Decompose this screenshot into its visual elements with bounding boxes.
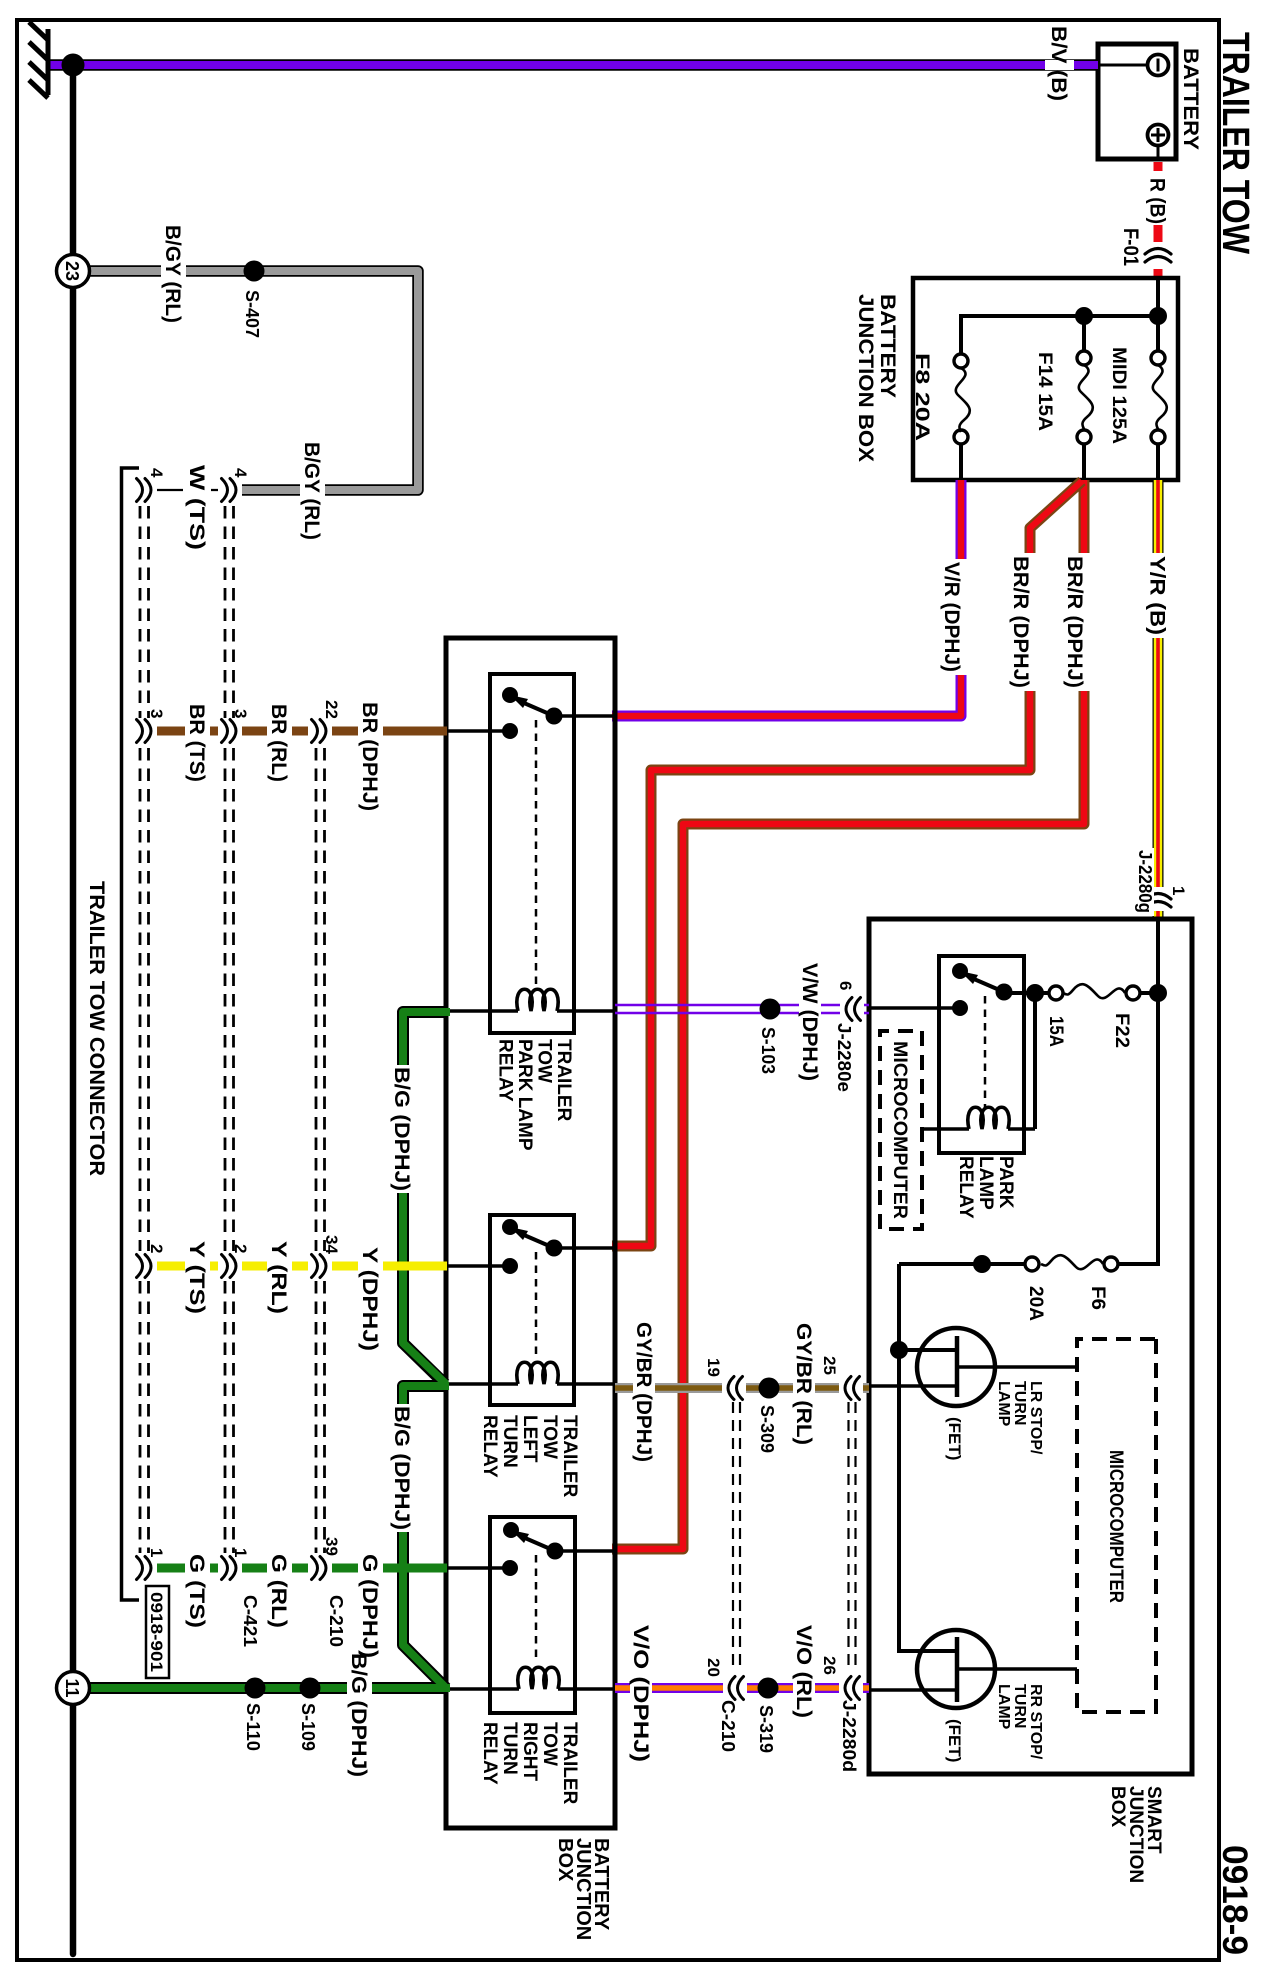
microcomputer dashed box (large) [1077,1339,1156,1712]
svg-text:4: 4 [147,468,166,478]
connector break J-2280g chevrons [1144,887,1172,911]
label G (TS) inline [185,1555,210,1581]
svg-text:(FET): (FET) [945,1417,964,1460]
label B/GY (RL) inline first [161,258,186,284]
svg-text:GY/BR (DPHJ): GY/BR (DPHJ) [632,1322,655,1462]
connector break pin1 at face chevrons [133,1555,157,1581]
wire stub bus to F14 [1082,316,1086,351]
svg-text:F14 15A: F14 15A [1034,352,1055,431]
svg-text:RELAY: RELAY [479,1415,500,1478]
wire BR contact to box edge [446,729,510,732]
junction node F6 output [973,1255,991,1273]
fuse F14 15A [1077,351,1091,365]
svg-text:TURN: TURN [1011,1381,1028,1425]
svg-text:TRAILER TOW CONNECTOR: TRAILER TOW CONNECTOR [85,881,108,1176]
connector break 19 chevrons [722,1375,746,1401]
svg-text:1: 1 [1169,886,1188,895]
label BR (RL) inline [267,718,292,744]
label V/O (RL) inline [793,1677,815,1699]
battery junction box (fuse box) [913,278,1178,480]
svg-text:V/O (RL): V/O (RL) [792,1625,815,1718]
svg-text:G (RL): G (RL) [267,1554,290,1628]
connector break pin34 at C-210 chevrons [308,1253,332,1279]
svg-text:Y/R (B): Y/R (B) [1146,556,1169,635]
junction node ground [62,54,85,77]
bus wire to F14 and F8 [961,316,1158,354]
wire G contact to box edge [446,1566,510,1569]
svg-text:(FET): (FET) [945,1719,964,1762]
wire F22 tap down [1140,991,1158,995]
svg-text:TOW: TOW [534,1039,555,1083]
svg-text:0918-9: 0918-9 [1215,1845,1254,1955]
label V/O (DPHJ) inline [630,1677,652,1699]
label BR/R (DPHJ) inline [1070,553,1096,691]
park lamp relay blade with arrow [524,703,554,716]
wire contact to box edge [869,1006,960,1009]
splice S-103 [760,999,781,1020]
connector line J-2280d dashed pair [849,1402,856,1667]
svg-text:BATTERY: BATTERY [1179,48,1202,150]
trailer tow right turn relay box [490,1517,575,1713]
svg-text:MICROCOMPUTER: MICROCOMPUTER [1105,1450,1126,1603]
svg-text:TRAILER TOW: TRAILER TOW [1214,32,1256,254]
relay common node [996,984,1013,1001]
junction node at F14 [1075,307,1093,325]
label GY/BR (RL) inline [793,1377,815,1399]
svg-text:LAMP: LAMP [975,1156,996,1210]
svg-text:TOW: TOW [539,1722,560,1766]
connector line C-421 dashed pair [225,506,234,1553]
fuse F8 20A [954,354,968,368]
left turn relay Y contact [502,1258,518,1274]
park lamp relay BR contact [502,723,518,739]
label B/GY (RL) inline second [300,477,325,503]
relay switch blade with arrow [974,979,1004,992]
label B/G (DPHJ) trunk inline first [390,1404,415,1532]
wire battery positive lead inside box [1157,146,1160,160]
label BR/R (DPHJ) inline second [1016,553,1042,691]
wire Y contact to box edge [446,1264,510,1267]
wire coil tap to park lamp relay coil [1033,993,1037,1129]
wire BR/R (DPHJ) F14 branch to trailer tow left turn relay, brown outline [612,481,1082,1246]
svg-text:BR (DPHJ): BR (DPHJ) [358,702,381,811]
left turn relay common node [546,1240,563,1257]
battery box [1098,44,1176,159]
svg-text:Y (RL): Y (RL) [267,1241,290,1314]
wire V/O (DPHJ)/(RL) right turn coil to SJB, violet outline [615,1683,869,1693]
park lamp relay actuator dashed link [535,720,538,986]
svg-text:BR (TS): BR (TS) [185,704,208,782]
wire RR FET to microcomputer [957,1667,1077,1670]
svg-text:S-103: S-103 [758,1027,778,1074]
svg-text:MICROCOMPUTER: MICROCOMPUTER [889,1041,910,1219]
relay contact to V/W wire [952,1000,968,1016]
wire V/O orange core [615,1685,869,1691]
svg-text:LEFT: LEFT [519,1415,540,1463]
label G (DPHJ) inline [358,1555,383,1581]
junction node LR FET branch [890,1341,908,1359]
battery negative terminal [1148,55,1169,76]
svg-text:F6: F6 [1087,1286,1108,1310]
trailer tow connector bracket [122,468,140,1600]
wire feed into box to MIDI fuse [1156,278,1160,351]
wire Y (DPHJ)/(RL)/(TS) left turn relay to connector pin 2, yellow [151,1262,447,1271]
connector line C-210 dashed pair (left) [316,748,325,1553]
connector break pin2 at face chevrons [133,1253,157,1279]
connector break pin39 at C-210 chevrons [308,1555,332,1581]
wire common to box edge [554,1246,613,1249]
svg-text:V/R (DPHJ): V/R (DPHJ) [940,562,963,672]
connector break pin4 at face chevrons [133,477,157,503]
wire Y/R (B) yellow [1154,480,1163,919]
wire Y/R (B) MIDI fuse to smart junction box, black outline [1153,480,1164,919]
svg-text:TURN: TURN [1011,1684,1028,1728]
label GY/BR (DPHJ) inline [633,1377,655,1399]
svg-text:F22: F22 [1111,1013,1132,1048]
wire RR FET to V/O [869,1688,957,1691]
connector line C-210 dashed pair (right) [733,1402,740,1667]
left turn relay coil [557,1382,615,1385]
left turn relay blade with arrow [524,1235,554,1248]
svg-text:4: 4 [231,468,250,478]
ground symbol chassis [46,29,51,95]
svg-text:GY/BR (RL): GY/BR (RL) [792,1323,815,1445]
svg-text:V/W (DPHJ): V/W (DPHJ) [798,963,821,1081]
svg-text:S-109: S-109 [298,1703,318,1751]
connector break pin2 at C-421 chevrons [218,1253,242,1279]
splice S-319 [758,1678,779,1699]
svg-text:B/G (DPHJ): B/G (DPHJ) [390,1067,413,1191]
wire Y/R (B) red stripe [1156,480,1160,919]
left turn relay actuator dashed link [535,1252,538,1358]
fuse F6 20A [1104,1257,1118,1271]
wire R (B) red segments battery to fusebox [1154,162,1163,278]
label G (RL) inline [267,1555,292,1581]
park lamp relay box (SJB) [939,956,1024,1153]
svg-text:23: 23 [62,261,82,281]
connector break 25 chevrons [839,1375,863,1401]
svg-text:TURN: TURN [499,1722,520,1775]
connector break pin22 at C-210 chevrons [308,718,332,744]
svg-text:PARK: PARK [995,1156,1016,1209]
svg-text:C-210: C-210 [326,1595,346,1647]
svg-text:RIGHT: RIGHT [519,1722,540,1782]
battery positive terminal [1148,125,1169,146]
svg-text:J-2280d: J-2280d [839,1700,859,1772]
right turn relay common node [547,1543,564,1560]
label BR (TS) inline [185,718,210,744]
svg-text:TOW: TOW [539,1415,560,1459]
svg-text:C-421: C-421 [240,1595,260,1647]
wire W (TS) connector pin 4 [151,489,224,491]
label Y/R (B) inline [1145,553,1171,638]
svg-text:LR STOP/: LR STOP/ [1027,1381,1044,1455]
right turn relay actuator dashed link [535,1555,538,1662]
svg-text:JUNCTION BOX: JUNCTION BOX [854,294,877,462]
label V/R (DPHJ) inline [947,559,973,675]
svg-text:25: 25 [820,1356,839,1375]
svg-text:B/V (B): B/V (B) [1047,26,1070,101]
wire G (DPHJ)/(RL)/(TS) right turn relay to connector pin 1, green [151,1564,447,1573]
connector break 26 chevrons [839,1675,863,1701]
svg-text:22: 22 [322,700,341,719]
junction node at MIDI [1149,307,1167,325]
trailer tow park lamp relay box [490,674,574,1033]
svg-text:15A: 15A [1045,1016,1066,1047]
svg-text:RELAY: RELAY [495,1039,516,1102]
svg-text:0918-901: 0918-901 [147,1592,166,1672]
wire common to box edge [554,714,613,717]
svg-text:B/G (DPHJ): B/G (DPHJ) [390,1406,413,1530]
ground reference circle 23 [57,255,90,288]
svg-text:B/G (DPHJ): B/G (DPHJ) [347,1653,370,1777]
label B/V (B) [1045,60,1074,70]
label V/W (DPHJ) inline [799,999,821,1020]
svg-text:F-01: F-01 [1119,228,1142,266]
svg-text:BR/R (DPHJ): BR/R (DPHJ) [1009,556,1032,688]
connector break pin4 at C-421 chevrons [218,477,242,503]
wire B/G (DPHJ) trunk, black outline [87,1012,448,1688]
svg-text:RELAY: RELAY [479,1722,500,1785]
wire battery negative lead inside box [1098,64,1148,67]
relay coil (SJB park lamp) [1008,1127,1035,1130]
svg-text:BR/R (DPHJ): BR/R (DPHJ) [1063,556,1086,688]
svg-text:BOX: BOX [1107,1786,1128,1828]
wire BR/R (DPHJ) red core [612,480,1084,1549]
wire V/R (DPHJ) F8 to trailer tow park lamp relay, violet outline [612,480,961,716]
wire GY/BR brown core [615,1385,869,1391]
svg-text:C-210: C-210 [718,1700,738,1752]
svg-text:W (TS): W (TS) [185,465,208,550]
wire main feed inside SJB [1118,919,1158,1264]
connector break pin3 at face chevrons [133,718,157,744]
relay actuator dashed link [984,996,987,1108]
ground trunk wire [70,65,77,1954]
wire B/GY (RL) grey core [87,271,418,490]
microcomputer dashed box (small) [880,1031,922,1229]
right turn relay open contact [503,1522,519,1538]
svg-text:RELAY: RELAY [955,1156,976,1219]
fuse F22 15A [1126,986,1140,1000]
wire V/R (DPHJ) crimson core [612,480,961,716]
trailer tow left turn relay box [490,1215,574,1405]
wire B/V (B) purple core [48,61,1098,69]
svg-text:20A: 20A [1025,1286,1046,1321]
fuse MIDI 125A [1151,351,1165,365]
label J-2280g [1135,848,1154,916]
svg-text:BOX: BOX [554,1838,576,1882]
svg-text:BATTERY: BATTERY [876,294,899,398]
wire B/GY (RL) ground circle 23 to C-421, black outline [87,271,418,490]
svg-text:G (DPHJ): G (DPHJ) [358,1554,381,1658]
label B/G (DPHJ) trunk inline second [390,1065,415,1193]
transistor RR stop/turn FET [917,1630,995,1708]
svg-text:6: 6 [836,981,855,990]
svg-text:B/GY (RL): B/GY (RL) [300,442,323,540]
connector face line dashed pair [140,506,149,1553]
svg-text:MIDI 125A: MIDI 125A [1108,347,1129,444]
connector break 20 chevrons [723,1675,747,1701]
svg-text:S-110: S-110 [243,1703,263,1751]
connector break F-01 chevrons [1144,242,1172,266]
svg-text:S-407: S-407 [242,290,262,338]
wire GY/BR (DPHJ)/(RL) left turn coil to SJB, grey outline [615,1383,869,1393]
svg-text:PARK LAMP: PARK LAMP [514,1039,535,1151]
svg-text:BR (RL): BR (RL) [267,704,290,782]
wire LR FET to microcomputer [957,1365,1077,1368]
label BR (DPHJ) inline [358,718,383,744]
splice S-309 [759,1378,780,1399]
svg-text:19: 19 [704,1358,723,1377]
park lamp relay coil [557,1009,615,1012]
wire BR/R (DPHJ) branch red core [612,481,1082,1246]
svg-text:S-319: S-319 [756,1705,776,1753]
connector break J-2280e chevrons [840,996,864,1022]
reference box 0918-901 [146,1586,169,1678]
right turn relay G contact [502,1560,518,1576]
ground reference circle 11 [57,1672,90,1705]
wire B/G (DPHJ) trunk green core [87,1012,450,1688]
right turn relay blade with arrow [525,1538,555,1551]
svg-text:RR STOP/: RR STOP/ [1027,1684,1044,1760]
svg-text:V/O (DPHJ): V/O (DPHJ) [629,1625,652,1762]
svg-text:J-2280e: J-2280e [834,1023,854,1092]
wire F6 to FET feed [899,1264,1025,1651]
wire BR/R (DPHJ) F14 to trailer tow right turn relay, brown outline [612,480,1084,1549]
label Y (RL) inline [267,1253,292,1279]
junction node at F22 tap [1149,984,1167,1002]
wire F22 to relay common [1004,991,1049,995]
splice S-407 [244,261,265,282]
wire common to box edge [555,1549,613,1552]
svg-text:J-2280g: J-2280g [1135,850,1155,913]
svg-text:LAMP: LAMP [995,1381,1012,1427]
svg-text:R (B): R (B) [1146,178,1169,224]
label Y (DPHJ) inline [358,1253,383,1279]
svg-text:Y (DPHJ): Y (DPHJ) [358,1247,381,1351]
svg-text:20: 20 [704,1658,723,1677]
transistor LR stop/turn FET [917,1328,995,1406]
splice S-109 [300,1678,321,1699]
svg-text:G (TS): G (TS) [185,1554,208,1628]
wire V/W (DPHJ) park lamp coil to SJB, double violet lines [615,1005,869,1013]
svg-text:TURN: TURN [499,1415,520,1468]
svg-text:F8 20A: F8 20A [911,353,932,441]
smart junction box [869,919,1192,1774]
battery junction box (relay box) [446,638,615,1828]
svg-text:TRAILER: TRAILER [559,1722,580,1805]
svg-text:TRAILER: TRAILER [553,1039,574,1122]
park lamp relay common node [546,708,563,725]
svg-text:Y (TS): Y (TS) [185,1241,208,1314]
svg-text:11: 11 [62,1678,82,1697]
label B/G (DPHJ) bottom inline [347,1676,372,1700]
left turn relay open contact [502,1219,518,1235]
svg-text:TRAILER: TRAILER [559,1415,580,1498]
wire BR (DPHJ)/(RL)/(TS) park lamp relay to connector pin 3, brown [151,727,447,736]
park lamp relay open contact [502,687,518,703]
wire B/V (B) battery to ground, black outline [48,59,1098,71]
svg-text:39: 39 [322,1537,341,1556]
relay open contact [952,963,968,979]
right turn relay coil [558,1687,615,1690]
svg-text:B/GY (RL): B/GY (RL) [161,225,184,323]
junction node coil tap [1026,984,1044,1002]
svg-text:LAMP: LAMP [995,1684,1012,1730]
connector break pin1 at C-421 chevrons [218,1555,242,1581]
label Y (TS) inline [185,1253,210,1279]
svg-text:26: 26 [820,1656,839,1675]
connector break pin3 at C-421 chevrons [218,718,242,744]
wire LR FET gate to GY/BR [869,1384,957,1387]
splice S-110 [245,1678,266,1699]
svg-text:S-309: S-309 [757,1405,777,1453]
